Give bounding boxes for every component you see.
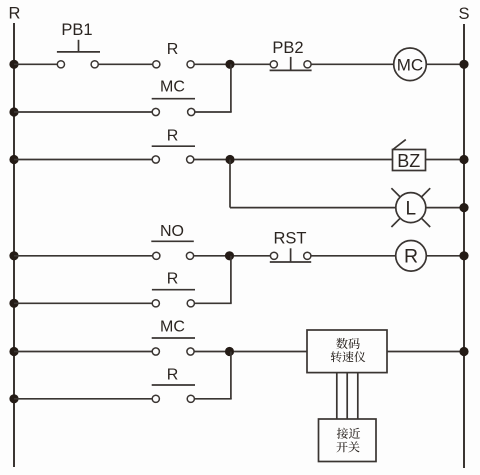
wire rung1 e [311,63,393,65]
junction left rail rung6 [9,299,18,308]
wire rung8 b [194,398,231,400]
contact R (NO) rung1 [153,61,160,68]
svg-text:PB2: PB2 [272,39,303,57]
wire rung6 a [14,302,152,304]
contact R (NC bar) rung6 [152,300,159,307]
wire rung7 d [387,351,464,353]
wire branch node A down [230,64,232,112]
node B junction [225,155,234,164]
wire rung7 c [234,351,307,353]
wire rung5 a [14,255,153,257]
wire rung5 c [234,255,271,257]
junction right rail rung5 [459,251,468,260]
wire rung4 a [230,207,396,209]
svg-text:R: R [167,41,179,58]
label 数码 [336,338,360,349]
lamp L [396,193,426,223]
wire rung3 b [194,159,226,161]
contact MC (NC bar) rung7 [152,348,159,355]
wire rung3 a [14,159,152,161]
node D junction [225,347,234,356]
junction left rail rung5 [9,251,18,260]
svg-text:R: R [167,271,179,288]
wire rung7 a [14,351,152,353]
wire rung5 d [311,255,396,257]
contact NO (NC bar) rung5 [153,252,160,259]
pushbutton PB2 (NO) [270,61,277,68]
right power rail S [463,24,465,468]
svg-text:RST: RST [274,229,307,247]
pushbutton PB1 (NC) [57,61,64,68]
svg-text:PB1: PB1 [61,21,92,39]
wire rung3 c [234,159,392,161]
wire rung6 b [194,302,231,304]
wire rung1 a [14,63,57,65]
proximity switch box [319,419,377,462]
svg-text:L: L [406,199,417,220]
svg-text:R: R [167,128,179,145]
wire sensor lead 3 [357,373,359,419]
wire rung7 b [194,351,225,353]
junction left rail rung2 [9,107,18,116]
svg-text:BZ: BZ [397,151,420,171]
wire rung8 a [14,398,152,400]
svg-text:MC: MC [160,318,185,335]
wire branch node D down [230,352,232,399]
digital tachometer box [307,330,387,373]
coil MC contactor [394,48,427,81]
wire rung4 b [426,207,464,209]
pushbutton RST (NO) [270,252,277,259]
contact R (NC bar) rung8 [152,395,159,402]
svg-text:S: S [458,5,469,23]
junction left rail rung3 [9,155,18,164]
wire rung2 b [195,111,232,113]
contact R (NC bar) rung3 [152,156,159,163]
wire branch node C down [230,256,232,303]
junction right rail rung4 [459,203,468,212]
svg-text:NO: NO [160,223,184,240]
relay coil R [396,241,427,272]
svg-text:R: R [9,5,21,23]
junction left rail rung1 [9,60,18,69]
wire sensor lead 1 [336,373,338,419]
wire rung5 b [194,255,226,257]
node C junction [225,251,234,260]
wire sensor lead 2 [346,373,348,419]
wire rung1 d [234,63,270,65]
wire rung2 a [14,111,152,113]
svg-text:MC: MC [160,79,185,96]
contact MC (NC bar) rung2 [152,108,159,115]
wire rung1 f [426,63,464,65]
wire rung1 b [98,63,152,65]
node A junction [225,60,234,69]
svg-text:MC: MC [397,55,423,74]
label 开关 [336,441,359,452]
svg-text:R: R [404,246,418,268]
left power rail R [13,23,15,467]
junction right rail rung7 [459,347,468,356]
wire rung1 c [194,63,226,65]
junction right rail rung3 [459,155,468,164]
label 转速仪 [331,351,366,362]
wire branch node B down [229,160,231,208]
buzzer BZ [393,150,426,171]
wire rung5 e [426,255,464,257]
wire rung3 d [426,159,465,161]
junction left rail rung7 [9,347,18,356]
junction right rail rung1 [459,60,468,69]
junction left rail rung8 [9,394,18,403]
svg-text:R: R [167,367,179,384]
label 接近 [337,428,360,439]
